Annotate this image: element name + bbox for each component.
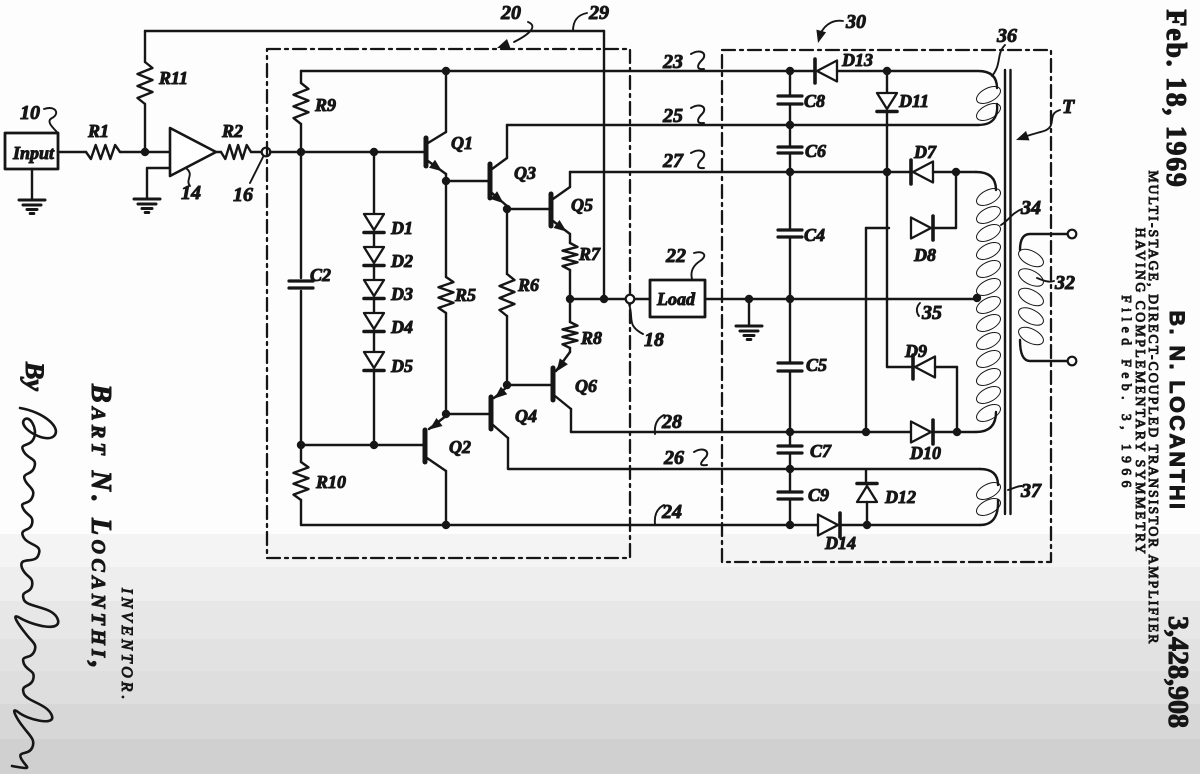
diode D2 [364,247,384,280]
wire amp to R2 [216,151,221,153]
header patent number [1162,616,1193,728]
diode D12 [857,484,877,526]
label D13 [841,50,873,70]
svg-text:Load: Load [656,289,696,309]
node main rail R9/C2 column [297,148,305,156]
resistor R11 [138,62,153,104]
svg-text:Q5: Q5 [571,195,593,215]
label Q3 [514,163,536,183]
diode D11 [877,71,897,172]
label Q6 [575,376,597,396]
wire node up to R11 [144,104,146,152]
line 25 rail [507,124,978,126]
svg-text:D9: D9 [904,341,927,361]
svg-text:C4: C4 [804,225,825,245]
wire C2 lower [300,291,302,445]
svg-text:R11: R11 [158,68,188,88]
node line28 cap column [786,428,794,436]
svg-text:Q6: Q6 [575,376,597,396]
svg-text:20: 20 [500,2,521,24]
diode D5 [364,352,384,371]
capacitor C7 [778,432,802,469]
wire D12 top [865,470,867,484]
wire input to R1 [58,151,86,153]
header date [1160,9,1191,188]
wire R11 to top rail [144,31,146,62]
label C9 [808,485,829,505]
wire Q2 base rail [301,444,423,446]
node winding center tap [973,294,981,302]
node Q2 base C2 column [297,441,305,449]
svg-text:Bart N. Locanthi,: Bart N. Locanthi, [85,383,116,673]
label D1 [390,218,413,238]
wire D9 right down [956,367,958,432]
load box 22 [650,280,705,317]
wire D8 left column [865,228,867,432]
label R6 [517,275,539,295]
wire Q1 collector to line 23 [445,71,447,132]
node Q2 base diode chain [370,441,378,449]
diode D9 [887,355,957,379]
svg-text:D8: D8 [913,245,936,265]
label 25 with hook [662,105,704,127]
node R7 R8 output junction [566,295,574,303]
svg-text:D4: D4 [390,317,413,337]
svg-text:D3: D3 [390,284,413,304]
title line 1 [1146,170,1161,645]
ground below amp [134,199,160,213]
label D3 [390,284,413,304]
resistor R9 [294,71,309,152]
dashed enclosure 30 [722,50,1051,562]
wire Q3 emitter to Q5 base [507,208,549,210]
svg-text:Q1: Q1 [451,133,473,153]
wire D8 right up [955,172,957,228]
svg-text:Q4: Q4 [515,406,537,426]
wire Q4 base [446,413,489,415]
node D10 right junction [953,428,961,436]
line 27 rail [570,171,910,173]
wire Q5 collector to line 27 [569,172,571,187]
title line 3 [1119,295,1134,493]
attorney signature [12,408,58,768]
node line26 cap column [786,465,794,473]
node Q4 base junction [442,410,450,418]
svg-text:D7: D7 [913,142,937,162]
label 23 with hook [662,51,704,73]
svg-text:R9: R9 [314,95,336,115]
svg-text:R6: R6 [517,275,539,295]
wire R1 to amp [120,151,170,153]
label 14 with leader [181,169,201,204]
label D11 [898,91,929,111]
wire line28 to winding [957,431,976,433]
line 23 rail [301,70,814,72]
svg-text:D11: D11 [898,91,929,111]
wire C2 upper [300,152,302,278]
svg-text:27: 27 [662,150,684,172]
svg-text:23: 23 [662,51,683,73]
label D7 [913,142,937,162]
svg-text:37: 37 [1020,480,1042,502]
capacitor C2 [289,281,313,288]
wire main rail to D1 [373,152,375,214]
wire Q1 emitter to Q3 base [446,180,488,182]
wire 29 down to output node [603,31,605,299]
diode D8 [866,216,956,240]
header inventor name [1165,310,1189,511]
node Q1 collector on line 23 [442,67,450,75]
svg-text:By: By [20,361,49,391]
label T with arrow [1016,96,1075,140]
label 34 with leader [1001,197,1041,225]
node line35 cap column [786,295,794,303]
node line27 cap column [786,168,794,176]
svg-text:R8: R8 [580,328,602,348]
inventor name bart [85,383,116,673]
line 24 rail left [301,524,818,526]
label Q1 [451,133,473,153]
transistor Q2 [425,416,446,524]
wire D9 column [886,172,888,367]
resistor R1 [86,145,120,159]
svg-text:16: 16 [233,184,253,206]
svg-text:C7: C7 [810,441,832,461]
ground below input [19,169,45,214]
label R10 [315,472,346,492]
label D8 [913,245,936,265]
label Q2 [449,437,471,457]
svg-text:10: 10 [20,102,40,124]
label 29 with hook [573,2,609,31]
label Q5 [571,195,593,215]
node D11 top [883,67,891,75]
title line 2 [1133,228,1148,557]
capacitor C4 [778,172,802,299]
svg-text:D12: D12 [884,487,916,507]
label C2 [310,265,331,285]
svg-text:26: 26 [663,447,684,469]
node Q3 emitter junction [503,205,511,213]
label 16 with leader [233,157,263,206]
diode D1 [364,214,384,247]
node Q2 collector on line 24 [442,521,450,529]
svg-text:R5: R5 [454,285,476,305]
label D4 [390,317,413,337]
transformer core [1005,70,1011,514]
label C4 [804,225,825,245]
label D5 [390,356,413,376]
svg-text:36: 36 [996,25,1017,47]
dashed enclosure 20 [267,49,630,558]
label 30 with arrow [816,11,866,43]
node 18 open circle [626,295,635,304]
diode D7 [911,160,956,184]
svg-text:30: 30 [845,11,866,33]
svg-text:D13: D13 [841,50,873,70]
wire D5 to Q2 base rail [373,372,375,445]
label 18 with leader [629,304,664,351]
svg-text:C2: C2 [310,265,331,285]
output line 35 right [790,298,977,300]
label 32 with tick [1037,272,1075,294]
diode D10 [911,420,957,444]
label D14 [824,533,856,553]
svg-text:C6: C6 [805,141,826,161]
wire load to cap column [705,298,790,300]
secondary terminal top [1068,230,1077,239]
resistor R6 column [500,209,515,385]
capacitor C5 [778,299,802,432]
label 26 with hook [663,447,707,469]
transistor Q4 [491,387,508,468]
diode D3 [364,280,384,313]
resistor R5 column [439,181,454,414]
label 36 with leader [992,25,1017,76]
node line23 cap column [786,67,794,75]
node line25 cap column [786,121,794,129]
svg-text:22: 22 [665,245,686,267]
diode D14 [818,513,867,537]
node feedback junction [600,295,608,303]
label 28 with hook [655,411,682,434]
svg-text:R2: R2 [221,121,243,141]
svg-text:3,428,908: 3,428,908 [1162,616,1193,728]
resistor R2 [221,145,251,159]
label R2 [221,121,243,141]
node main rail diode chain [370,148,378,156]
node at R11 junction [141,148,149,156]
svg-text:25: 25 [662,105,683,127]
by text [20,361,49,391]
winding 36 [887,71,1003,125]
svg-text:B. N. LOCANTHI: B. N. LOCANTHI [1165,310,1189,511]
wire line27 to winding [956,171,976,173]
line 26 rail [508,468,980,469]
node Q1 emitter junction [442,177,450,185]
svg-text:T: T [1062,96,1075,118]
node ground junction [745,295,753,303]
capacitor C9 [778,469,802,525]
transistor Q3 [490,158,507,209]
label 20 with arrow [497,2,532,48]
transistor Q5 [551,187,570,243]
svg-text:18: 18 [644,329,664,351]
op-amp 14 triangle [170,128,216,176]
label R8 [580,328,602,348]
capacitor C6 [778,147,802,171]
svg-text:INVENTOR.: INVENTOR. [118,587,135,703]
svg-text:R1: R1 [87,121,109,141]
node line27 D7 junction [883,168,891,176]
label C8 [804,91,825,111]
resistor R10 [294,445,309,525]
secondary winding 32 [1016,234,1068,361]
inventor word [118,587,135,703]
svg-text:14: 14 [181,182,201,204]
label 37 with tick [1008,480,1042,502]
label C7 [810,441,832,461]
label D12 [884,487,916,507]
diode D13 [815,59,887,83]
label R7 [578,244,601,264]
svg-text:D2: D2 [390,251,413,271]
wire Q6 base [507,384,551,386]
secondary terminal bottom [1068,357,1077,366]
winding 37 [974,469,1003,525]
amp lower input wire [147,168,170,198]
ground at load [736,299,762,340]
node D10 left junction [862,428,870,436]
winding 34 [974,172,1003,432]
wire node16 to Q1 base [270,151,424,153]
node 16 open circle [262,148,271,157]
label 27 with hook [662,150,704,172]
label D9 [904,341,927,361]
transistor Q6 [553,352,571,432]
svg-text:C5: C5 [806,355,827,375]
label D10 [909,443,941,463]
svg-text:R10: R10 [315,472,346,492]
label D2 [390,251,413,271]
svg-text:Feb. 18, 1969: Feb. 18, 1969 [1160,9,1191,188]
label R1 [87,121,109,141]
svg-text:R7: R7 [578,244,601,264]
wire Q3 collector to line 25 [506,125,508,158]
svg-text:D10: D10 [909,443,941,463]
svg-text:C8: C8 [804,91,825,111]
wire R2 to node 16 [251,151,262,153]
label C6 [805,141,826,161]
label 35 with hook [917,302,942,324]
node line24 cap column [786,521,794,529]
line 28 rail left [571,431,911,433]
svg-text:D1: D1 [390,218,413,238]
label R11 [158,68,188,88]
line 24 to winding 37 [867,524,980,526]
svg-text:29: 29 [588,2,609,24]
node Q6 base junction [503,381,511,389]
svg-text:HAVING COMPLEMENTARY SYMMETRY: HAVING COMPLEMENTARY SYMMETRY [1133,228,1148,557]
svg-text:D14: D14 [824,533,856,553]
label C5 [806,355,827,375]
svg-text:35: 35 [921,302,942,324]
svg-text:32: 32 [1054,272,1075,294]
label R5 [454,285,476,305]
label R9 [314,95,336,115]
svg-text:Filed Feb. 3, 1966: Filed Feb. 3, 1966 [1119,295,1134,493]
resistor R8 [563,299,578,352]
node D12 bottom junction [863,521,871,529]
capacitor C8 [778,71,802,146]
feedback top rail 29 [145,30,604,32]
svg-text:Input: Input [12,143,55,163]
svg-text:Q3: Q3 [514,163,536,183]
label 10 with leader [20,102,57,132]
label 24 with hook [655,501,682,524]
svg-text:D5: D5 [390,356,413,376]
output line to load [570,298,650,300]
svg-text:C9: C9 [808,485,829,505]
diode D4 [364,313,384,352]
transistor Q1 [426,132,446,181]
input terminal box 10 [5,133,58,169]
node D7 right junction [952,168,960,176]
resistor R7 [563,243,578,299]
svg-text:34: 34 [1020,197,1041,219]
label Q4 [515,406,537,426]
svg-text:Q2: Q2 [449,437,471,457]
label 22 with leader [665,245,704,279]
